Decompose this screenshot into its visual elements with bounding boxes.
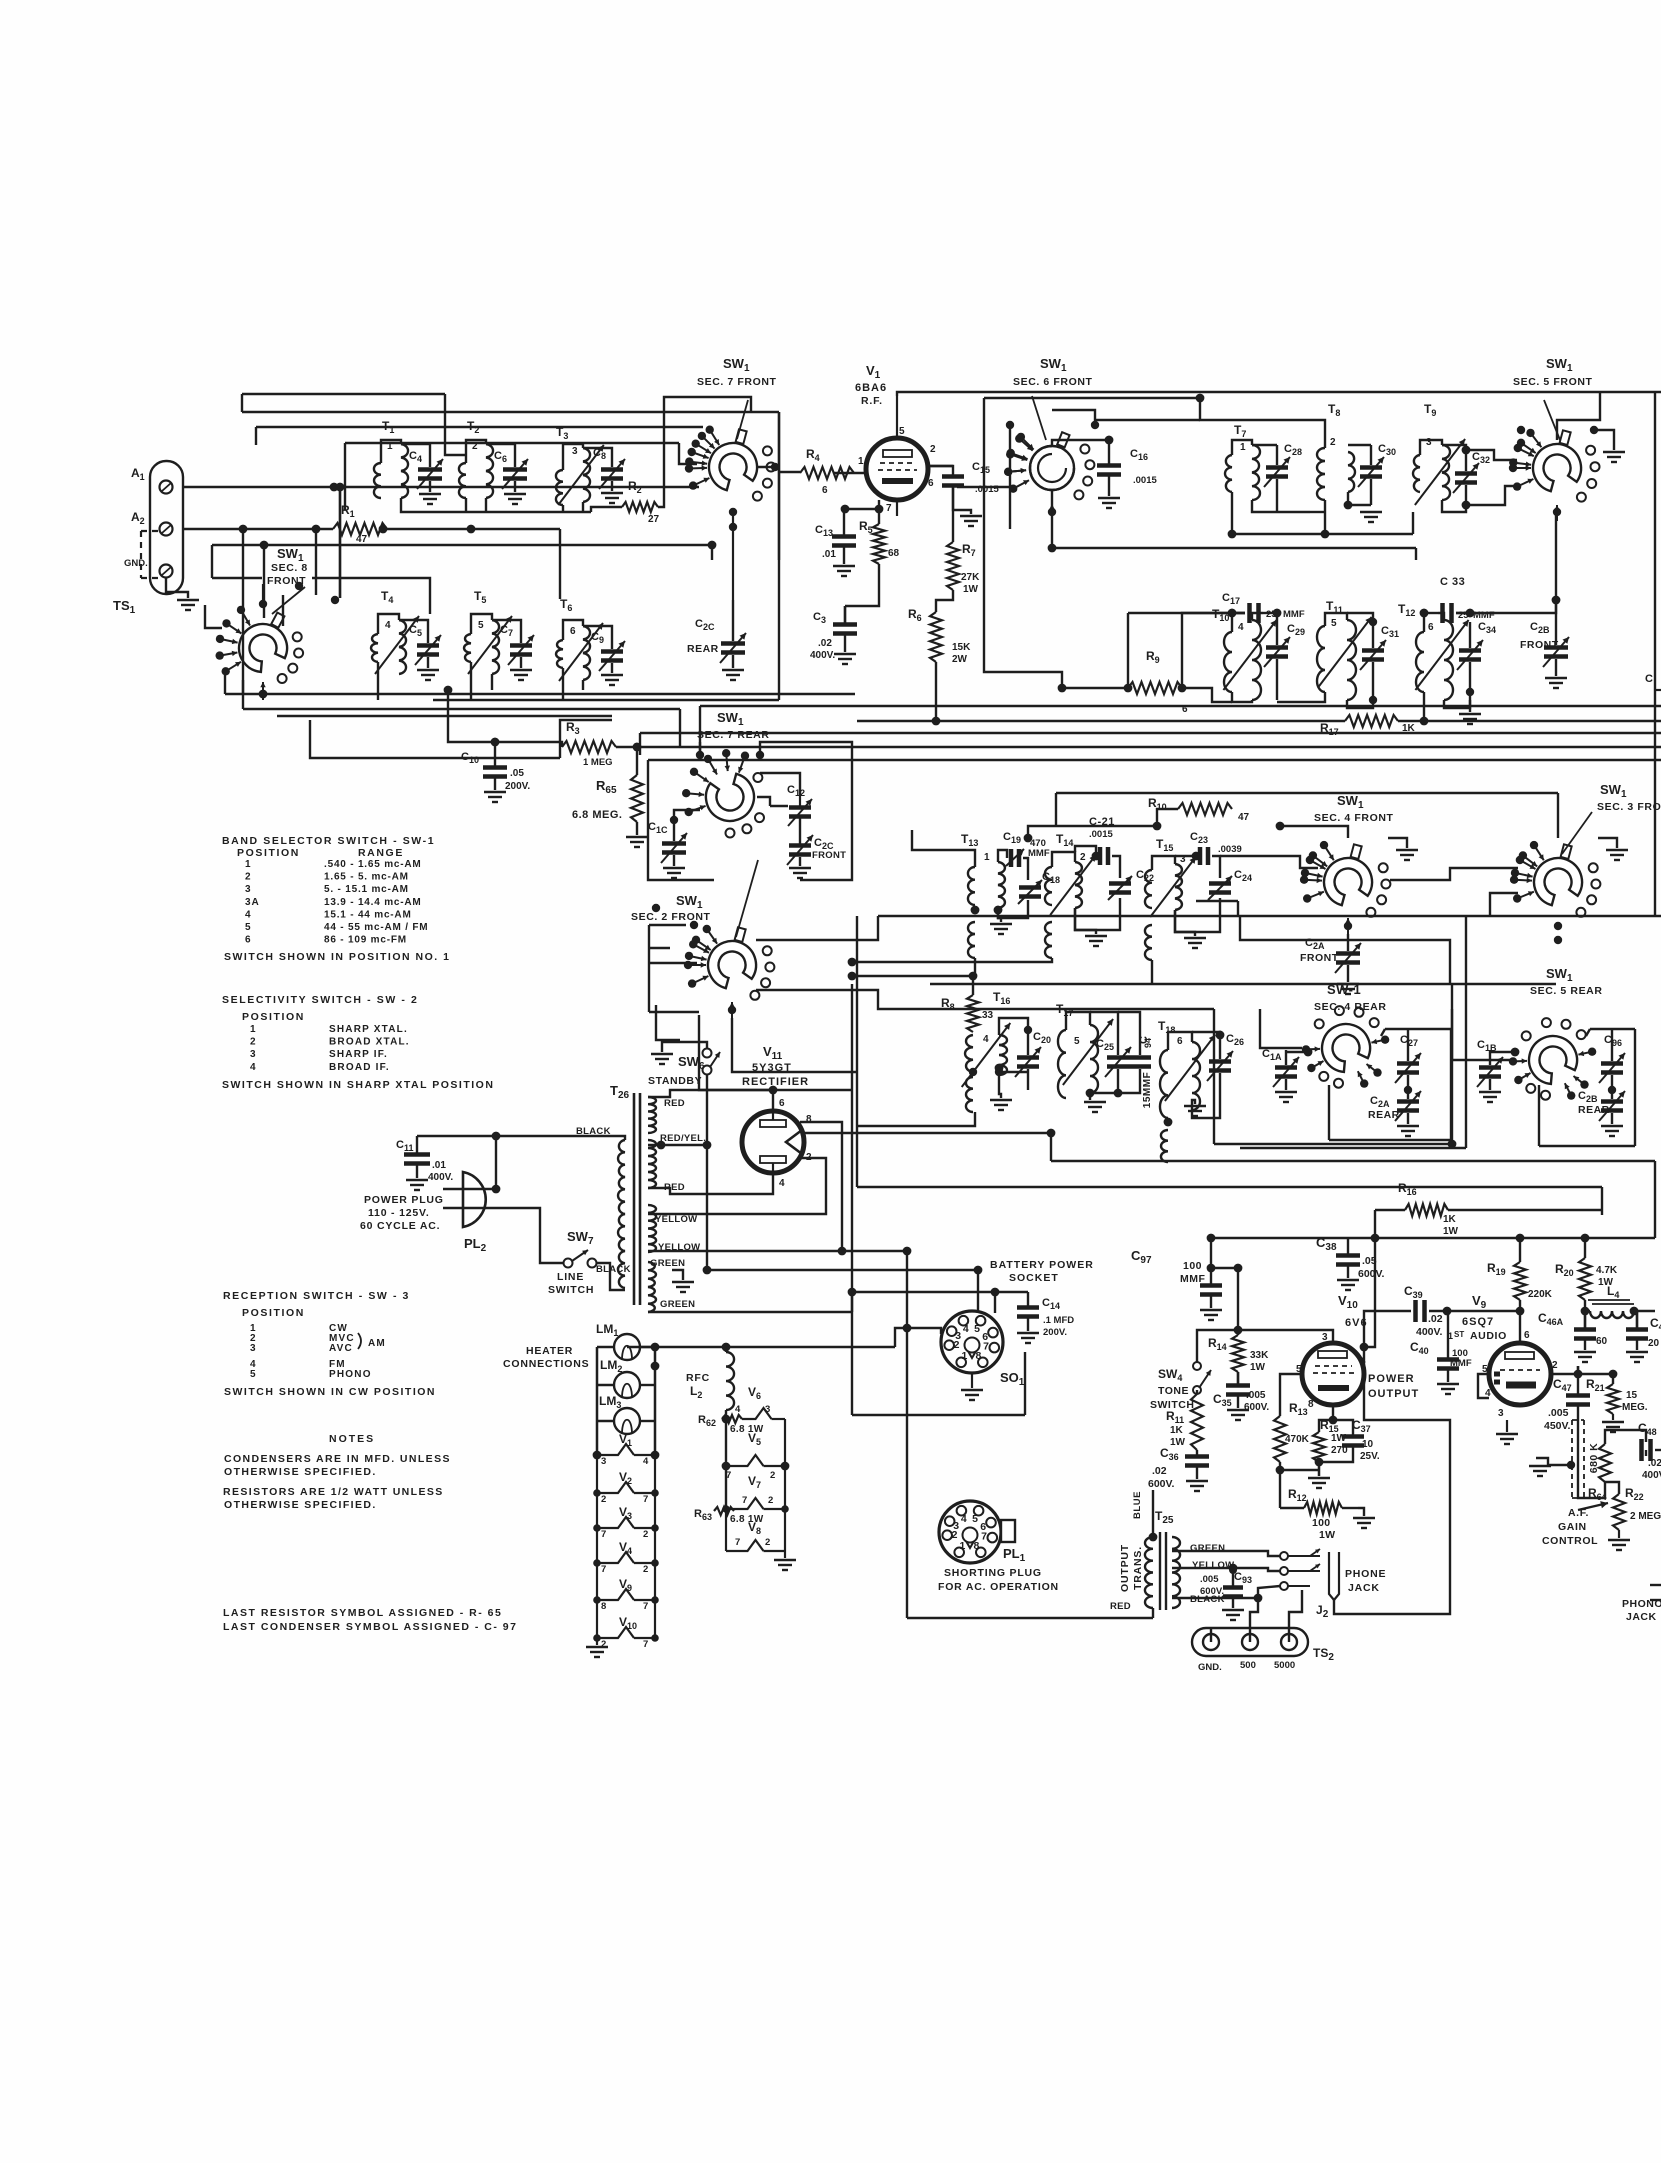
wire rail y427 bbox=[256, 426, 703, 428]
svg-text:1.65 - 5. mc-AM: 1.65 - 5. mc-AM bbox=[324, 872, 409, 883]
tube heater V3 bbox=[593, 1505, 659, 1540]
svg-text:BLUE: BLUE bbox=[1132, 1491, 1143, 1519]
text notes bbox=[223, 1433, 451, 1511]
svg-text:2: 2 bbox=[250, 1037, 257, 1048]
svg-text:3: 3 bbox=[765, 1404, 770, 1415]
svg-text:4.7K: 4.7K bbox=[1596, 1265, 1618, 1276]
wire C46A C46 taps bbox=[1636, 1311, 1638, 1329]
svg-text:HEATER: HEATER bbox=[526, 1345, 573, 1357]
trimmer C2C FRONT bbox=[787, 817, 846, 878]
resistor R10 bbox=[1148, 796, 1250, 823]
ground at SO1 bbox=[971, 1373, 973, 1388]
tube heater V7 bbox=[722, 1474, 789, 1513]
wire yellow down red out bbox=[906, 1251, 908, 1618]
ground below R15 bbox=[1318, 1462, 1320, 1476]
wire T9 tops bbox=[1420, 440, 1442, 455]
tube V1 6BA6 RF amplifier bbox=[855, 363, 936, 516]
svg-text:15.1 - 44 mc-AM: 15.1 - 44 mc-AM bbox=[324, 909, 412, 920]
svg-text:RFC: RFC bbox=[686, 1372, 710, 1384]
svg-text:SWITCH: SWITCH bbox=[548, 1284, 594, 1296]
svg-text:2: 2 bbox=[245, 872, 252, 883]
svg-text:JACK: JACK bbox=[1626, 1611, 1657, 1623]
svg-text:60: 60 bbox=[1596, 1336, 1608, 1347]
svg-text:1 MEG: 1 MEG bbox=[583, 757, 613, 768]
svg-text:4: 4 bbox=[643, 1456, 649, 1467]
svg-text:4: 4 bbox=[245, 909, 252, 920]
text phono jack (cut at right edge) bbox=[1622, 1598, 1661, 1623]
text band selector switch table bbox=[222, 835, 450, 963]
wire C1A lead bbox=[1286, 1051, 1308, 1053]
wire TS2 leads bbox=[1210, 1628, 1212, 1642]
wire R19 bbox=[1519, 1238, 1521, 1262]
wire R20 L4 net bbox=[1584, 1238, 1586, 1258]
svg-text:3: 3 bbox=[572, 446, 578, 457]
svg-text:RED: RED bbox=[1110, 1601, 1131, 1612]
wire y1187 long bbox=[857, 1186, 1602, 1188]
ground at T17 bbox=[1089, 1093, 1091, 1100]
text selectivity switch table bbox=[222, 994, 494, 1091]
svg-text:1W: 1W bbox=[1319, 1529, 1335, 1541]
wire V1 plate top rail bbox=[897, 392, 1661, 396]
wire rail y412 bbox=[242, 411, 779, 413]
wire V9 pin2 C47 bbox=[1551, 1373, 1578, 1375]
wire T11 link bbox=[1277, 692, 1325, 702]
resistor R63 6.8 1W bbox=[694, 1507, 764, 1525]
wire A2 through R1 bbox=[183, 528, 333, 530]
svg-text:1: 1 bbox=[960, 1540, 966, 1552]
svg-text:68: 68 bbox=[888, 548, 900, 559]
trimmer C4 bbox=[401, 444, 443, 504]
wire T15 group bbox=[1152, 856, 1175, 870]
series capacitor C33 25MMF bbox=[1420, 576, 1495, 623]
svg-text:44 - 55 mc-AM / FM: 44 - 55 mc-AM / FM bbox=[324, 922, 428, 933]
svg-text:15MMF: 15MMF bbox=[1142, 1072, 1153, 1108]
wire sec2 left contacts bbox=[648, 925, 650, 1012]
svg-text:1K: 1K bbox=[1443, 1214, 1457, 1225]
transformer T6 bbox=[556, 597, 603, 681]
wire T8 top to bus bbox=[1200, 398, 1325, 448]
wire T13 primary top bbox=[912, 830, 975, 867]
capacitor C14 bbox=[1017, 1292, 1074, 1343]
transformer T13 bbox=[961, 832, 1005, 958]
svg-text:LAST CONDENSER SYMBOL ASSIG: LAST CONDENSER SYMBOL ASSIGNED - C- 97 bbox=[223, 1621, 517, 1633]
svg-text:BROAD XTAL.: BROAD XTAL. bbox=[329, 1037, 410, 1048]
wire R12 left bbox=[1280, 1507, 1304, 1509]
svg-text:SEC. 8: SEC. 8 bbox=[271, 562, 308, 574]
wire R9 right bbox=[1182, 613, 1245, 688]
svg-text:SHARP XTAL.: SHARP XTAL. bbox=[329, 1024, 408, 1035]
svg-text:600V.: 600V. bbox=[1358, 1268, 1385, 1280]
resistor R14 33K 1W bbox=[1208, 1335, 1269, 1373]
svg-text:1: 1 bbox=[245, 859, 252, 870]
rotary switch SW1 SEC.7 FRONT bbox=[685, 356, 779, 600]
svg-text:7: 7 bbox=[601, 1529, 606, 1540]
trimmer C8 bbox=[583, 447, 625, 503]
wire PL2 bottom prong bbox=[464, 1208, 564, 1263]
svg-text:6.8 MEG.: 6.8 MEG. bbox=[572, 809, 622, 821]
wire C10 down feed bbox=[417, 1135, 496, 1137]
wire A1 to switch contact bbox=[183, 486, 699, 488]
svg-text:5: 5 bbox=[1331, 618, 1337, 629]
trimmer C32 bbox=[1453, 446, 1490, 509]
svg-text:OUTPUT: OUTPUT bbox=[1368, 1388, 1419, 1400]
wire sec7r top contacts bbox=[699, 742, 701, 755]
wire T10 group bbox=[1231, 613, 1233, 632]
svg-text:7: 7 bbox=[643, 1601, 648, 1612]
svg-text:AM: AM bbox=[368, 1338, 386, 1349]
capacitor C94 15MMF bbox=[1129, 1036, 1153, 1108]
svg-text:BLACK: BLACK bbox=[1190, 1594, 1225, 1605]
svg-text:SELECTIVITY SWITCH - SW - 2: SELECTIVITY SWITCH - SW - 2 bbox=[222, 994, 418, 1006]
svg-text:5: 5 bbox=[250, 1369, 257, 1380]
svg-text:.0015: .0015 bbox=[1133, 475, 1157, 486]
wire RFC top bbox=[725, 1347, 727, 1352]
resistor R21 15 MEG bbox=[1586, 1377, 1648, 1432]
wire T1 T2 T3 tops bbox=[381, 440, 401, 463]
ground at SW1 SEC.3 FRONT bbox=[1598, 838, 1617, 848]
wire T14 ground link bbox=[1075, 908, 1096, 930]
svg-text:1: 1 bbox=[858, 456, 864, 467]
wire sec4F to sec3F bbox=[1390, 868, 1518, 880]
series capacitor C23 .0039 bbox=[1190, 831, 1242, 865]
wire R3 C10 run bbox=[448, 690, 562, 747]
wire sec7r box bbox=[648, 760, 714, 880]
svg-text:MMF: MMF bbox=[1028, 848, 1050, 859]
svg-text:GAIN: GAIN bbox=[1558, 1521, 1587, 1533]
svg-text:5000: 5000 bbox=[1274, 1660, 1295, 1671]
svg-text:400V.: 400V. bbox=[428, 1172, 453, 1183]
wire right edge vertical bbox=[1654, 392, 1656, 760]
wire V10 plate to C39 bbox=[1364, 1311, 1411, 1347]
variable capacitor C19 470MMF bbox=[1003, 831, 1050, 867]
svg-text:20: 20 bbox=[1648, 1338, 1660, 1349]
svg-text:1: 1 bbox=[984, 852, 990, 863]
wire R14 C35 node bbox=[1237, 1372, 1239, 1385]
wire lamp rails bbox=[596, 1347, 598, 1455]
wire jack frame bbox=[1334, 1520, 1450, 1614]
variable capacitor C24 bbox=[1208, 869, 1252, 900]
tube heater V10 bbox=[593, 1615, 659, 1650]
tube heater V6 bbox=[735, 1385, 785, 1419]
svg-text:15: 15 bbox=[1626, 1390, 1638, 1401]
svg-text:3: 3 bbox=[1322, 1332, 1328, 1343]
svg-text:47: 47 bbox=[1238, 812, 1250, 823]
svg-text:3: 3 bbox=[250, 1049, 257, 1060]
svg-text:STANDBY: STANDBY bbox=[648, 1075, 702, 1087]
wire T14 group bbox=[1052, 852, 1075, 867]
trimmer C1B bbox=[1477, 1039, 1503, 1102]
wire y976 feeder bbox=[852, 975, 975, 977]
svg-text:1: 1 bbox=[1240, 442, 1246, 453]
series capacitor C48 (cut) bbox=[1638, 1421, 1661, 1481]
svg-text:TONE: TONE bbox=[1158, 1385, 1189, 1397]
svg-text:SEC. 6 FRONT: SEC. 6 FRONT bbox=[1013, 376, 1093, 388]
capacitor C3 bbox=[810, 606, 857, 664]
wire V10 grid to R14 bbox=[1238, 1330, 1333, 1343]
svg-text:6: 6 bbox=[570, 626, 576, 637]
svg-text:7: 7 bbox=[643, 1639, 648, 1650]
trimmer C2B FRONT bbox=[1520, 596, 1569, 688]
svg-text:6: 6 bbox=[1428, 622, 1434, 633]
svg-text:.0015: .0015 bbox=[1089, 829, 1113, 840]
svg-text:2: 2 bbox=[952, 1529, 958, 1541]
wire SW4 to R11 bbox=[1196, 1390, 1198, 1394]
long bus y733 bbox=[640, 732, 1661, 734]
svg-text:RECEPTION SWITCH - SW - 3: RECEPTION SWITCH - SW - 3 bbox=[223, 1290, 410, 1302]
svg-text:A.F.: A.F. bbox=[1568, 1507, 1589, 1519]
battery power socket SO1 bbox=[941, 1259, 1094, 1388]
svg-text:400V.: 400V. bbox=[810, 650, 835, 661]
wire C39 to V9 bbox=[1429, 1310, 1520, 1312]
svg-text:1W: 1W bbox=[1170, 1437, 1186, 1448]
svg-text:2: 2 bbox=[1080, 852, 1086, 863]
capacitor C2 (cut at right edge) bbox=[1645, 673, 1661, 690]
svg-text:3: 3 bbox=[1498, 1408, 1504, 1419]
text last symbols assigned bbox=[223, 1607, 517, 1633]
svg-text:YELLOW: YELLOW bbox=[1192, 1560, 1234, 1571]
svg-text:2: 2 bbox=[930, 444, 936, 455]
svg-text:MMF: MMF bbox=[1180, 1273, 1205, 1285]
resistor R11 1K 1W bbox=[1166, 1394, 1203, 1450]
wire 680K net bbox=[1578, 1465, 1605, 1498]
svg-text:6.8 1W: 6.8 1W bbox=[730, 1514, 764, 1525]
rotary switch SW1 SEC.6 FRONT bbox=[1004, 356, 1099, 520]
wire T17 C25 C94 bbox=[1090, 1012, 1118, 1030]
svg-text:5: 5 bbox=[478, 620, 484, 631]
terminal strip TS2 bbox=[1192, 1628, 1334, 1673]
wire V10 pin5 bbox=[1280, 1374, 1302, 1416]
wire sec6 box bbox=[984, 398, 1062, 688]
svg-text:1W: 1W bbox=[1250, 1362, 1266, 1373]
resistor R3 bbox=[562, 720, 616, 768]
wire R4 to V1 bbox=[834, 472, 864, 474]
wire T12 link bbox=[1423, 613, 1425, 632]
svg-text:2: 2 bbox=[768, 1495, 773, 1506]
svg-text:10: 10 bbox=[1362, 1439, 1374, 1450]
wire SEC4R cluster box bbox=[1328, 1085, 1330, 1140]
power plug PL2 bbox=[360, 1172, 487, 1254]
svg-text:SHARP IF.: SHARP IF. bbox=[329, 1049, 388, 1060]
tone switch SW4 bbox=[1150, 1362, 1211, 1411]
wire C12 net bbox=[760, 773, 800, 795]
svg-text:5: 5 bbox=[899, 426, 905, 437]
wire middle verticals bbox=[851, 984, 853, 1312]
svg-text:33K: 33K bbox=[1250, 1350, 1269, 1361]
transformer T5 bbox=[464, 589, 512, 674]
svg-text:BATTERY POWER: BATTERY POWER bbox=[990, 1259, 1094, 1271]
wire RFC bottom bbox=[725, 1410, 727, 1419]
tube V10 6V6 power output bbox=[1296, 1293, 1419, 1410]
svg-text:5: 5 bbox=[972, 1513, 978, 1525]
wire red bottom to V11 pin4 bbox=[648, 1173, 773, 1194]
svg-text:.02: .02 bbox=[818, 638, 832, 649]
wire sec5R feeder bbox=[1452, 1009, 1510, 1060]
svg-text:110 - 125V.: 110 - 125V. bbox=[368, 1207, 430, 1219]
svg-text:SOCKET: SOCKET bbox=[1009, 1272, 1059, 1284]
variable capacitor C18 bbox=[1018, 871, 1060, 904]
trimmer C2C REAR bbox=[687, 600, 746, 680]
wire R65 junction bbox=[636, 747, 638, 775]
rotary switch SW1 SEC.5 FRONT bbox=[1509, 356, 1600, 521]
svg-text:1W: 1W bbox=[1443, 1226, 1459, 1237]
svg-text:AVC: AVC bbox=[329, 1343, 353, 1354]
svg-text:MMF: MMF bbox=[1283, 609, 1305, 620]
wire R13 bottom bbox=[1280, 1462, 1319, 1470]
svg-text:3: 3 bbox=[245, 884, 252, 895]
svg-text:SEC. 5 FRONT: SEC. 5 FRONT bbox=[1513, 376, 1593, 388]
wire staircase right bbox=[1240, 916, 1450, 984]
transformer T3 bbox=[556, 425, 604, 505]
wire R16 bus bbox=[1375, 1209, 1405, 1211]
wire T13 sec top to C19 bbox=[998, 850, 1007, 862]
rotary switch SW1 SEC.3 FRONT bbox=[1510, 782, 1661, 944]
trimmer C34 bbox=[1457, 621, 1496, 724]
svg-text:.005: .005 bbox=[1548, 1407, 1569, 1419]
tube V9 6SQ7 1st audio bbox=[1448, 1293, 1558, 1419]
svg-text:4: 4 bbox=[1238, 622, 1244, 633]
wire R2 right up bbox=[658, 397, 751, 507]
wire T7 tops bbox=[1232, 440, 1252, 455]
svg-text:CONNECTIONS: CONNECTIONS bbox=[503, 1358, 589, 1370]
svg-text:POSITION: POSITION bbox=[242, 1011, 305, 1023]
rotary switch SW1 SEC.4 FRONT bbox=[1300, 793, 1394, 934]
wire T16 T17 link bbox=[999, 1071, 1028, 1073]
svg-text:2 MEG.: 2 MEG. bbox=[1630, 1511, 1661, 1522]
variable capacitor C12 bbox=[787, 784, 812, 826]
svg-text:3: 3 bbox=[1426, 437, 1432, 448]
wire y826 to sec4F bbox=[1280, 826, 1348, 838]
svg-text:FOR AC. OPERATION: FOR AC. OPERATION bbox=[938, 1581, 1059, 1593]
wire redyel center tap bbox=[648, 1144, 707, 1146]
wire T123 secondary bottom bus bbox=[401, 498, 591, 512]
ground flag left of 680K bbox=[1536, 1458, 1571, 1465]
wire A1 branch to SW8 bbox=[339, 487, 341, 598]
svg-text:NOTES: NOTES bbox=[329, 1433, 375, 1445]
svg-text:CONDENSERS ARE IN MFD. UNL: CONDENSERS ARE IN MFD. UNLESS bbox=[224, 1453, 451, 1465]
capacitor C11 bbox=[396, 1136, 453, 1190]
svg-text:RESISTORS ARE 1/2 WATT UNL: RESISTORS ARE 1/2 WATT UNLESS bbox=[223, 1486, 444, 1498]
choke L4 bbox=[1588, 1284, 1634, 1318]
wire C47 down bbox=[1577, 1418, 1579, 1465]
svg-text:SEC. 7 REAR: SEC. 7 REAR bbox=[697, 729, 770, 741]
transformer T1 bbox=[374, 419, 408, 498]
svg-text:15K: 15K bbox=[952, 642, 971, 653]
wire T25 green tap bbox=[1172, 1551, 1280, 1556]
wire V10 cathode bbox=[1319, 1405, 1333, 1432]
wire R14 top bbox=[1237, 1268, 1239, 1335]
svg-text:27: 27 bbox=[648, 514, 660, 525]
ground right of R12 bbox=[1358, 1508, 1364, 1516]
svg-text:GREEN: GREEN bbox=[1190, 1543, 1225, 1554]
wire T25 blue up bbox=[1152, 1490, 1154, 1537]
wire y953 feeder bbox=[852, 958, 1052, 962]
resistor R2 bbox=[622, 479, 660, 525]
svg-text:3A: 3A bbox=[245, 897, 260, 908]
svg-text:25V.: 25V. bbox=[1360, 1451, 1380, 1462]
trimmer C5 bbox=[399, 620, 441, 680]
wire SW6 bus down bbox=[707, 1074, 978, 1270]
wire sec5F to top rail bbox=[1557, 392, 1600, 440]
svg-text:86 - 109 mc-FM: 86 - 109 mc-FM bbox=[324, 935, 407, 946]
series capacitor C39 bbox=[1404, 1284, 1443, 1338]
tube heater V1 bbox=[593, 1432, 659, 1467]
wire R9 left bbox=[1062, 687, 1128, 689]
svg-text:.01: .01 bbox=[432, 1160, 446, 1171]
resistor R16 1K 1W bbox=[1398, 1181, 1459, 1237]
svg-text:OTHERWISE SPECIFIED.: OTHERWISE SPECIFIED. bbox=[224, 1499, 377, 1511]
transformer T7 bbox=[1225, 423, 1260, 500]
RF choke RFC L2 bbox=[686, 1352, 734, 1410]
ground at T15 bbox=[1175, 910, 1195, 936]
wire y548 link bbox=[1051, 490, 1053, 548]
wire battery frame bbox=[851, 1312, 853, 1415]
svg-text:RANGE: RANGE bbox=[358, 847, 404, 859]
wire R21 top bbox=[1578, 1374, 1613, 1384]
svg-text:4: 4 bbox=[250, 1062, 257, 1073]
trimmer C27 bbox=[1395, 1034, 1421, 1094]
wire rail y443 bbox=[345, 442, 679, 444]
svg-text:SEC. 7 FRONT: SEC. 7 FRONT bbox=[697, 376, 777, 388]
svg-text:13.9 - 14.4 mc-AM: 13.9 - 14.4 mc-AM bbox=[324, 897, 422, 908]
wire rail y578 bbox=[212, 577, 262, 579]
wire T11 bottom bbox=[1347, 700, 1373, 708]
svg-text:94: 94 bbox=[1143, 1038, 1153, 1048]
svg-text:5. - 15.1 mc-AM: 5. - 15.1 mc-AM bbox=[324, 884, 409, 895]
svg-text:1: 1 bbox=[250, 1024, 257, 1035]
wire top rail y394 bbox=[242, 393, 445, 395]
svg-text:GND.: GND. bbox=[124, 558, 148, 569]
svg-text:5: 5 bbox=[974, 1323, 980, 1335]
wire sw8 verticals bbox=[242, 529, 244, 694]
dial lamp LM1 bbox=[596, 1322, 640, 1360]
wire sw8 bottom lines bbox=[225, 693, 855, 695]
resistor R12 100 1W bbox=[1288, 1487, 1342, 1541]
svg-text:OTHERWISE SPECIFIED.: OTHERWISE SPECIFIED. bbox=[224, 1466, 377, 1478]
svg-text:SEC. 2 FRONT: SEC. 2 FRONT bbox=[631, 911, 711, 923]
rotary switch SW-1 SEC.4 REAR bbox=[1302, 982, 1390, 1088]
wire T18 C26 bbox=[1168, 1032, 1192, 1050]
wire V9 pins45 bbox=[1478, 1374, 1489, 1398]
ground at TS1 bbox=[166, 578, 188, 598]
svg-text:RED: RED bbox=[664, 1098, 685, 1109]
junction dots bbox=[330, 483, 339, 492]
trimmer C1A bbox=[1262, 1048, 1299, 1102]
svg-text:SEC. 3 FRONT: SEC. 3 FRONT bbox=[1597, 801, 1661, 813]
wire C97 hang bbox=[1210, 1238, 1212, 1240]
svg-text:7: 7 bbox=[983, 1341, 989, 1353]
svg-text:2: 2 bbox=[765, 1537, 770, 1548]
trimmer C96 bbox=[1599, 1034, 1625, 1094]
wire T8 C30 link bbox=[1348, 444, 1371, 446]
svg-text:MEG.: MEG. bbox=[1622, 1402, 1648, 1413]
capacitor C38 bbox=[1316, 1235, 1385, 1290]
svg-text:C: C bbox=[1645, 673, 1653, 685]
ground at T26 green winding bbox=[672, 1270, 683, 1280]
line switch SW7 bbox=[548, 1229, 631, 1296]
ground at T16 bbox=[999, 1068, 1001, 1098]
svg-text:1K: 1K bbox=[1170, 1425, 1184, 1436]
wire R8 T16 bbox=[972, 976, 974, 995]
trimmer C26 bbox=[1207, 1031, 1244, 1090]
wire SEC5R cluster box bbox=[1538, 1085, 1540, 1146]
transformer T9 bbox=[1413, 402, 1465, 505]
svg-text:4: 4 bbox=[961, 1513, 967, 1525]
wire V10 pin4 down to T25 bbox=[1364, 1347, 1450, 1520]
svg-text:SEC. 5 REAR: SEC. 5 REAR bbox=[1530, 985, 1603, 997]
svg-text:C 33: C 33 bbox=[1440, 576, 1465, 588]
rectifier tube V11 5Y3GT bbox=[742, 1044, 812, 1189]
svg-text:POWER: POWER bbox=[1368, 1373, 1415, 1385]
